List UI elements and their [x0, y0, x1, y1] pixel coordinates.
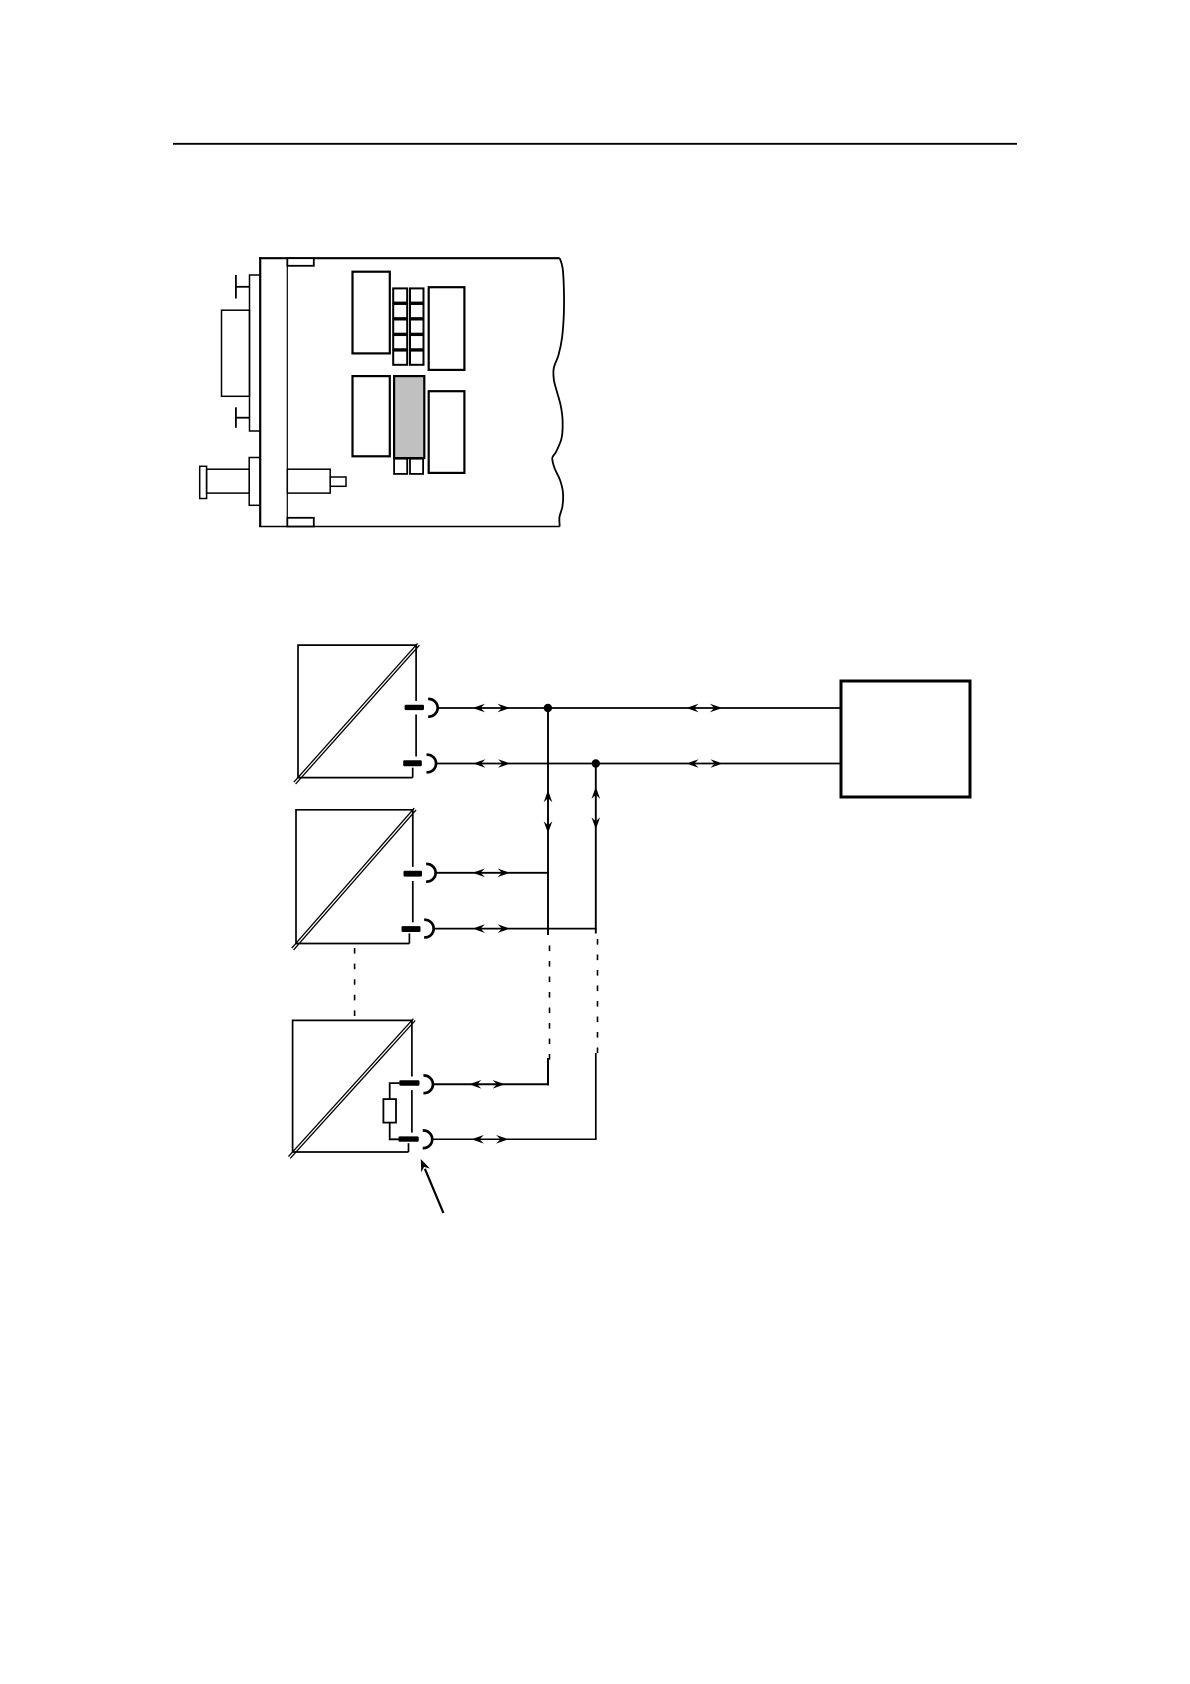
station 2 right edge middle segment [412, 881, 414, 922]
bus drop B dashed [597, 939, 599, 1055]
station n right edge upper segment [411, 1020, 413, 1077]
arrow pair on L1 near station 1 [473, 759, 485, 768]
top mounting tab [287, 258, 314, 266]
station 1 box outline [298, 645, 416, 778]
IC3 component [353, 376, 390, 456]
PCB board torn right edge [552, 258, 564, 526]
bottom screw stem [236, 417, 250, 419]
junction dot B [592, 759, 600, 767]
top screw stem [236, 286, 250, 288]
resistor top lead [390, 1083, 400, 1099]
arrow pair on station 2 top wire [473, 869, 485, 878]
station 1 bottom socket arc [427, 755, 437, 773]
station 2 top wire [436, 872, 549, 874]
master device box [841, 681, 970, 797]
station 1 top plug bar [405, 705, 424, 710]
arrow pair on L1 near master [686, 759, 698, 768]
station n bottom wire [432, 1138, 596, 1140]
horizontal rule [173, 143, 1017, 145]
bus drop A solid upper [547, 708, 549, 935]
arrow pair on station n top wire [469, 1080, 481, 1089]
station n top socket arc [423, 1076, 433, 1094]
station 1 diagonal line 2 [296, 645, 420, 784]
station 2 right edge upper segment [412, 809, 414, 867]
bottom mounting tab [287, 518, 314, 527]
pointer arrow shaft [425, 1169, 444, 1213]
bus drop A dashed [549, 946, 551, 1061]
station n right edge middle segment [411, 1090, 413, 1133]
station n diagonal line 2 [290, 1021, 415, 1159]
station 1 right edge upper segment [415, 644, 417, 701]
station n diagonal line 1 [288, 1019, 413, 1157]
station 2 bottom plug bar [402, 926, 421, 932]
PCB board top edge [259, 257, 560, 259]
station 2 top socket arc [426, 864, 436, 882]
station 1 diagonal line 1 [294, 643, 418, 782]
station 2 top plug bar [404, 871, 423, 877]
resistor bottom lead [390, 1123, 399, 1140]
PCB board left edge [259, 257, 261, 526]
continuation dashed line [354, 948, 356, 1016]
IC2 component [429, 287, 465, 370]
junction dot A [544, 704, 552, 712]
station 1 right edge middle segment [415, 715, 417, 757]
PCB board bottom edge [259, 526, 560, 528]
top screw head [235, 275, 237, 299]
IC1 component [353, 272, 390, 354]
BNC flange [249, 458, 260, 506]
BNC end cap [200, 466, 207, 498]
station n bottom plug bar [399, 1136, 419, 1141]
BNC inner stub [330, 477, 346, 486]
station 2 box outline [296, 810, 413, 944]
front panel line [286, 258, 288, 526]
pointer arrow head [416, 1157, 430, 1172]
D-sub connector body [222, 310, 250, 396]
station 2 diagonal line 1 [292, 808, 415, 948]
station 1 right edge stub [412, 768, 414, 778]
bus drop B solid upper [595, 764, 597, 934]
bus drop B up arrow [592, 787, 601, 799]
BNC barrel [207, 469, 250, 493]
pad A [394, 459, 407, 474]
station n top plug bar [399, 1080, 419, 1085]
station n right edge stub [408, 1143, 410, 1152]
bus drop B solid lower [595, 1053, 597, 1139]
IC4 component [429, 391, 465, 473]
bus drop A down arrow [544, 821, 553, 833]
arrow pair on station 2 bottom wire [473, 924, 485, 933]
bus drop A up arrow [544, 790, 553, 802]
connector bracket plate [250, 275, 261, 431]
terminating resistor body [383, 1099, 396, 1123]
arrow pair on station n bottom wire [472, 1135, 484, 1144]
station 2 bottom socket arc [424, 920, 434, 938]
pad B [410, 459, 423, 474]
bus wire L1 (bottom) [436, 763, 841, 765]
station 1 bottom plug bar [403, 760, 422, 766]
bus drop B down arrow [592, 817, 601, 829]
DIP switch block [393, 288, 407, 302]
station 1 top socket arc [428, 699, 438, 717]
bus wire L2 (top) [438, 707, 841, 709]
station n bottom socket arc [423, 1131, 433, 1149]
BNC inner body [287, 469, 330, 493]
station 2 right edge stub [408, 933, 410, 943]
station n box outline [293, 1020, 412, 1152]
bus drop A solid lower [547, 1058, 549, 1085]
station 2 bottom wire [434, 928, 597, 930]
arrow pair on L2 near station 1 [473, 704, 485, 713]
bottom screw head [235, 407, 237, 428]
station 2 diagonal line 2 [294, 810, 417, 950]
arrow pair on L2 near master [686, 704, 698, 713]
station n top wire [433, 1083, 549, 1085]
gray module component [394, 376, 424, 458]
